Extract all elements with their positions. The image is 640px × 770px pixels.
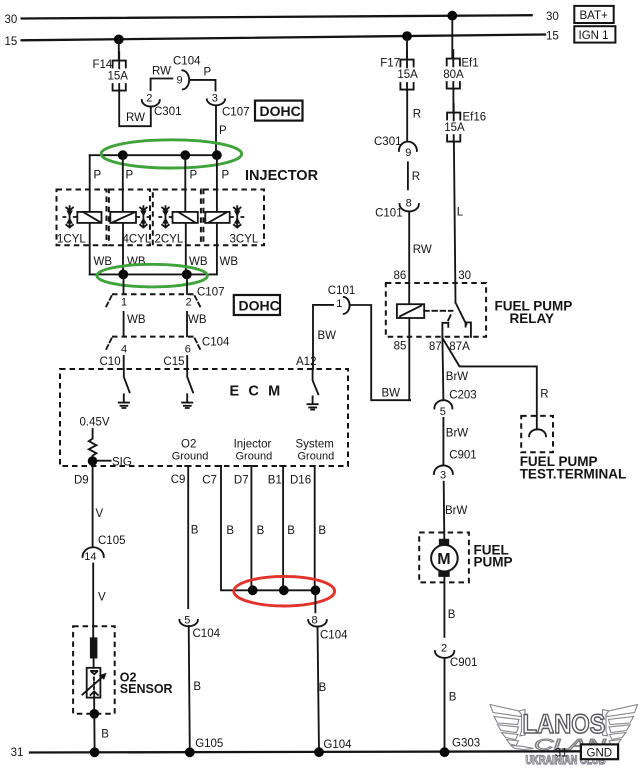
injector 4CYL dashed box xyxy=(109,190,150,246)
junction on WB bus (right) xyxy=(182,270,192,280)
connector C203 pin 5 xyxy=(434,390,476,418)
wire C105-14 to O2 sensor (V) xyxy=(92,564,94,638)
pin notch C7 xyxy=(218,465,221,467)
svg-text:C101: C101 xyxy=(375,208,403,220)
svg-text:Ground: Ground xyxy=(172,451,209,463)
svg-text:System: System xyxy=(296,438,334,450)
connector C301 pin 2 xyxy=(142,93,182,119)
svg-text:F14: F14 xyxy=(93,59,113,71)
svg-text:Ground: Ground xyxy=(236,451,273,463)
wire WB drop 2CYL xyxy=(185,223,187,275)
wire BW return to C101-1 xyxy=(350,305,411,400)
wire D9 (V) to C105 xyxy=(92,461,94,547)
svg-text:R: R xyxy=(412,171,420,183)
svg-text:BAT+: BAT+ xyxy=(580,10,609,22)
connector C301 pin 9 xyxy=(374,136,417,159)
injector ground bus (WB) xyxy=(90,273,217,275)
connector C101 pin 1 xyxy=(328,285,356,314)
wire C9 (B) ECM to C104-5 xyxy=(187,466,189,608)
ground (ECM C15) xyxy=(182,394,192,408)
injector 1CYL dashed box xyxy=(57,190,107,246)
wire C301-2 stub to C104-9 xyxy=(151,79,173,91)
node G104 junction xyxy=(314,747,324,757)
svg-text:C301: C301 xyxy=(374,136,402,148)
red highlight ellipse (ground bus) xyxy=(234,576,335,606)
wire C104-8 to G104 xyxy=(318,627,320,753)
junction on P bus (2CYL) xyxy=(180,150,190,160)
svg-text:4CYL: 4CYL xyxy=(123,233,152,245)
svg-text:0.45V: 0.45V xyxy=(80,417,110,429)
svg-text:LANOS: LANOS xyxy=(523,709,606,739)
wire Ef1 drop (crosses rail 15) xyxy=(451,16,453,59)
label O2 SENSOR xyxy=(120,670,173,696)
fuse Ef16 15A xyxy=(444,104,486,142)
wire F17 drop xyxy=(406,36,408,59)
svg-text:2: 2 xyxy=(441,643,447,655)
svg-text:SIG: SIG xyxy=(112,457,132,469)
connector C104 pin 9 xyxy=(173,56,201,90)
injector feed bus (P) xyxy=(90,154,217,156)
svg-text:P: P xyxy=(94,170,102,182)
wire to ECM pin C15 xyxy=(186,356,188,369)
pin notch D16 xyxy=(312,465,315,467)
svg-text:B: B xyxy=(449,691,457,703)
svg-text:C901: C901 xyxy=(449,450,477,462)
svg-text:G105: G105 xyxy=(195,738,223,750)
test terminal connector arc xyxy=(529,429,546,436)
svg-text:C107: C107 xyxy=(197,286,225,298)
wire P drop to 1CYL xyxy=(89,155,91,212)
pin notch D7 xyxy=(248,465,251,467)
label FUEL PUMP xyxy=(474,542,513,569)
connector C101 pin 8 xyxy=(375,197,419,219)
wire WB drop 1CYL xyxy=(89,223,91,275)
connector C107 inline (pins 1,2) xyxy=(106,286,225,308)
injector 2CYL dashed box xyxy=(153,190,201,246)
svg-text:BW: BW xyxy=(318,330,337,342)
O2 sensor heater element (black bar) xyxy=(90,637,98,658)
svg-text:Ef16: Ef16 xyxy=(463,112,487,124)
svg-text:C104: C104 xyxy=(202,336,230,348)
fuse F14 15A xyxy=(93,52,129,91)
wire rail 31 xyxy=(30,751,581,752)
svg-text:6: 6 xyxy=(185,343,191,355)
svg-text:WB: WB xyxy=(220,256,239,268)
connector C105 pin 14 xyxy=(83,535,126,563)
wire WB C107-1 to C104-4 xyxy=(123,312,125,336)
ECM A12 internal switch xyxy=(313,369,319,394)
ground (ECM A12) xyxy=(308,396,318,409)
junction G (O2 sensor) on rail 31 xyxy=(90,747,100,757)
svg-text:B: B xyxy=(319,682,327,694)
label System Ground xyxy=(296,438,335,462)
svg-text:87: 87 xyxy=(429,341,442,353)
wire inside sensor xyxy=(93,659,95,668)
injector 2CYL valve nozzle xyxy=(159,206,171,227)
injector 2CYL coil xyxy=(173,212,198,223)
svg-text:V: V xyxy=(98,591,106,603)
svg-text:B: B xyxy=(318,525,326,537)
node BAT+ box xyxy=(574,6,613,23)
fuse Ef1 80A xyxy=(443,50,478,89)
svg-text:30: 30 xyxy=(5,14,18,26)
svg-text:15A: 15A xyxy=(397,69,418,81)
fuel pump motor M xyxy=(431,539,458,577)
svg-text:O2: O2 xyxy=(181,439,196,451)
node G303 junction xyxy=(440,747,450,757)
svg-text:C15: C15 xyxy=(163,356,184,368)
wire F14 drop xyxy=(118,39,120,60)
svg-text:BrW: BrW xyxy=(446,371,469,383)
svg-text:WB: WB xyxy=(127,314,146,326)
node SIG junction xyxy=(88,456,98,466)
svg-text:G104: G104 xyxy=(323,739,352,751)
resistor (0.45V pull-up) xyxy=(89,429,97,458)
wire P drop to 2CYL xyxy=(184,155,186,212)
svg-text:P: P xyxy=(204,67,212,79)
svg-text:B: B xyxy=(287,525,295,537)
connector C107 pin 3 xyxy=(207,92,250,118)
svg-text:TEST.TERMINAL: TEST.TERMINAL xyxy=(520,466,627,481)
svg-text:15: 15 xyxy=(546,31,559,43)
svg-text:C9: C9 xyxy=(171,474,186,486)
svg-text:1: 1 xyxy=(121,296,127,308)
svg-text:C203: C203 xyxy=(449,390,477,402)
svg-text:E C M: E C M xyxy=(230,383,283,399)
wire F17 to C301-9 (R) xyxy=(406,90,408,141)
junction D16 on ground bus xyxy=(311,585,321,595)
svg-text:9: 9 xyxy=(405,147,411,159)
svg-text:C105: C105 xyxy=(98,535,126,547)
label Injector Ground xyxy=(234,438,273,462)
svg-text:C104: C104 xyxy=(320,630,348,642)
label O2 Ground xyxy=(172,439,209,463)
svg-text:RW: RW xyxy=(152,66,171,78)
svg-text:31: 31 xyxy=(11,747,24,759)
wire WB drop 4CYL xyxy=(122,223,124,275)
relay contact 87A xyxy=(466,322,471,337)
svg-text:DOHC: DOHC xyxy=(260,103,301,119)
svg-text:BrW: BrW xyxy=(446,427,469,439)
svg-text:WB: WB xyxy=(188,314,207,326)
wire cell to shell junction xyxy=(93,698,95,714)
svg-text:C301: C301 xyxy=(154,106,182,118)
wire C107-3 down to injector bus (P) xyxy=(215,106,217,155)
green highlight ellipse (WB bus) xyxy=(97,264,208,287)
svg-text:C104: C104 xyxy=(193,628,221,640)
svg-text:INJECTOR: INJECTOR xyxy=(245,168,319,184)
svg-text:RELAY: RELAY xyxy=(510,311,555,326)
O2 sensor dashed box xyxy=(73,626,115,714)
DOHC box (upper) xyxy=(255,101,303,121)
svg-text:WB: WB xyxy=(189,256,208,268)
svg-text:5: 5 xyxy=(440,406,446,418)
svg-text:30: 30 xyxy=(458,270,471,282)
wire F14 to C301 pin2 (RW) xyxy=(119,91,151,126)
svg-text:C101: C101 xyxy=(328,285,356,297)
svg-text:C107: C107 xyxy=(222,107,250,119)
wire WB C107-2 to C104-6 xyxy=(186,312,188,336)
ECM C15 internal switch xyxy=(187,369,193,392)
svg-text:P: P xyxy=(190,170,198,182)
svg-text:D7: D7 xyxy=(234,474,249,486)
wire Ef1 to Ef16 xyxy=(452,89,454,112)
wire B to rail 31 xyxy=(93,714,95,753)
pin notch C9 xyxy=(185,465,188,467)
svg-text:B: B xyxy=(193,681,201,693)
svg-text:P: P xyxy=(219,125,227,137)
junction on P bus (3CYL) xyxy=(212,150,222,160)
junction at sensor shell xyxy=(90,709,100,719)
injector 4CYL coil xyxy=(110,212,136,223)
injector 3CYL valve nozzle xyxy=(231,206,244,227)
node GND box xyxy=(581,744,618,759)
svg-text:B1: B1 xyxy=(268,474,282,486)
junction on rail 15 at F14 xyxy=(114,35,124,45)
svg-text:30: 30 xyxy=(546,11,559,23)
svg-text:87A: 87A xyxy=(449,341,470,353)
svg-text:BrW: BrW xyxy=(445,505,468,517)
svg-text:B: B xyxy=(448,609,456,621)
wire fuel pump to C901-2 (B) xyxy=(443,577,445,637)
svg-text:15: 15 xyxy=(5,36,18,48)
svg-text:R: R xyxy=(413,108,421,120)
svg-text:4: 4 xyxy=(121,343,127,355)
ECM C10 internal switch xyxy=(124,369,130,392)
wire rail 30 xyxy=(22,15,532,18)
junction D7 on ground bus xyxy=(248,585,258,595)
svg-text:15A: 15A xyxy=(444,122,465,134)
wire C101-1 to ECM A12 (BW) xyxy=(313,305,333,369)
wire relay 85 to BW node xyxy=(408,318,410,400)
svg-text:3: 3 xyxy=(440,469,446,481)
svg-text:86: 86 xyxy=(394,270,407,282)
svg-text:B: B xyxy=(257,525,265,537)
relay coil-to-contact dashed link xyxy=(424,310,452,312)
svg-text:BW: BW xyxy=(382,387,401,399)
wire B1 (B) xyxy=(282,466,284,590)
svg-text:Injector: Injector xyxy=(234,438,272,450)
svg-text:2: 2 xyxy=(146,93,152,105)
svg-text:8: 8 xyxy=(406,197,412,209)
svg-text:DOHC: DOHC xyxy=(239,298,280,314)
svg-text:15A: 15A xyxy=(108,71,129,83)
ground (ECM C10) xyxy=(119,394,129,408)
svg-text:F17: F17 xyxy=(380,58,400,70)
svg-text:C104: C104 xyxy=(173,56,201,68)
injector 3CYL coil xyxy=(205,212,229,223)
pin notch B1 xyxy=(280,465,283,467)
svg-text:B: B xyxy=(191,524,199,536)
svg-text:D16: D16 xyxy=(290,474,311,486)
wire D16 to C104-8 xyxy=(314,590,316,612)
injector 4CYL valve nozzle xyxy=(137,206,149,227)
wire D7 (B) xyxy=(250,466,252,590)
wire WB to C107-2 xyxy=(186,274,188,294)
label FUEL PUMP RELAY xyxy=(495,299,573,327)
svg-text:C901: C901 xyxy=(450,657,478,669)
svg-text:GND: GND xyxy=(587,747,613,759)
svg-text:85: 85 xyxy=(394,340,407,352)
connector C901 pin 3 xyxy=(434,450,477,482)
svg-text:C10: C10 xyxy=(100,356,121,368)
junction on rail 30 at Ef1 xyxy=(447,11,457,21)
connector C901 pin 2 xyxy=(435,643,478,669)
node G105 junction xyxy=(185,747,195,757)
wire rail 15 xyxy=(22,35,545,41)
svg-text:M: M xyxy=(437,551,450,568)
green highlight ellipse (P bus) xyxy=(101,140,242,168)
wire C901-3 to fuel pump (BrW) xyxy=(443,482,446,539)
svg-text:Ground: Ground xyxy=(298,451,335,463)
wire C7 (B) ECM to injector-ground bus xyxy=(221,466,315,590)
fuel pump test terminal dashed box xyxy=(521,416,553,452)
ECM dashed box xyxy=(60,369,348,466)
fuel pump relay dashed box xyxy=(386,283,486,337)
injector 1CYL coil xyxy=(77,212,101,223)
relay link diagonal dash xyxy=(448,315,450,320)
wire branch 87 to test terminal (R) xyxy=(443,338,537,429)
svg-text:Ef1: Ef1 xyxy=(461,58,478,70)
wire WB to C107-1 xyxy=(123,274,125,294)
node SIG tick and label xyxy=(97,460,111,462)
wire C104-5 to G105 xyxy=(189,626,190,752)
svg-text:PUMP: PUMP xyxy=(474,555,513,570)
svg-text:2: 2 xyxy=(186,296,192,308)
wire P drop to 3CYL xyxy=(216,155,218,212)
junction on WB bus (left) xyxy=(118,270,128,280)
connector C104 inline (pins 4,6) xyxy=(106,336,230,355)
svg-text:9: 9 xyxy=(177,75,183,87)
relay switch blade xyxy=(456,303,467,325)
svg-text:P: P xyxy=(126,170,134,182)
wire to ECM pin C10 xyxy=(123,356,125,369)
svg-text:G303: G303 xyxy=(452,738,480,750)
svg-text:RW: RW xyxy=(126,112,145,124)
svg-text:SENSOR: SENSOR xyxy=(120,682,173,696)
label FUEL PUMP TEST.TERMINAL xyxy=(520,454,627,482)
svg-text:1: 1 xyxy=(336,298,342,310)
junction on P bus (4CYL) xyxy=(118,150,128,160)
junction on rail 15 at F17 xyxy=(402,31,412,41)
svg-text:WB: WB xyxy=(94,256,113,268)
svg-text:14: 14 xyxy=(84,551,96,563)
fuel pump dashed box xyxy=(419,533,469,583)
wire C101-8 to relay coil (RW) xyxy=(408,211,410,304)
connector C104 pin 5 xyxy=(179,614,220,640)
wire C203-5 to C901-3 (BrW) xyxy=(442,418,444,464)
svg-text:RW: RW xyxy=(413,244,432,256)
svg-text:P: P xyxy=(222,170,230,182)
fuse F17 15A xyxy=(380,51,418,90)
svg-text:3: 3 xyxy=(212,92,218,104)
svg-text:1CYL: 1CYL xyxy=(57,233,86,245)
svg-text:IGN 1: IGN 1 xyxy=(579,30,609,42)
wire C104-9 to C107 pin3 (P) xyxy=(189,80,215,91)
injector 3CYL dashed box xyxy=(203,190,264,246)
LANOS club watermark logo xyxy=(490,705,534,750)
svg-text:2CYL: 2CYL xyxy=(155,233,184,245)
node IGN 1 box xyxy=(574,26,615,42)
connector C104 pin 8 xyxy=(308,614,348,641)
DOHC box (lower) xyxy=(234,295,280,315)
svg-text:C7: C7 xyxy=(202,474,217,486)
injector 1CYL valve nozzle xyxy=(63,206,75,227)
svg-text:B: B xyxy=(226,525,234,537)
wire Ef16 to relay pin 30 (L) xyxy=(454,142,456,303)
svg-text:31: 31 xyxy=(555,747,568,759)
wire D16 (B) xyxy=(314,466,316,590)
svg-text:80A: 80A xyxy=(443,69,464,81)
svg-text:3CYL: 3CYL xyxy=(230,233,259,245)
svg-text:5: 5 xyxy=(184,614,190,626)
wire WB drop 3CYL xyxy=(216,223,218,275)
svg-text:L: L xyxy=(457,207,464,219)
svg-text:D9: D9 xyxy=(74,474,89,486)
svg-text:B: B xyxy=(101,728,109,740)
wire C901-2 to G303 (B) xyxy=(444,658,446,752)
wire P drop to 4CYL xyxy=(122,155,124,212)
wire relay 87 to C203-5 (BrW) xyxy=(442,337,443,400)
relay contact 87 xyxy=(442,323,448,337)
relay coil xyxy=(397,304,424,318)
junction B1 on ground bus xyxy=(279,585,289,595)
svg-text:V: V xyxy=(96,508,104,520)
wire C301-9 to C101-8 (R) xyxy=(407,162,409,189)
O2 sensor cell (variable element) xyxy=(82,668,106,698)
svg-text:R: R xyxy=(540,388,548,400)
